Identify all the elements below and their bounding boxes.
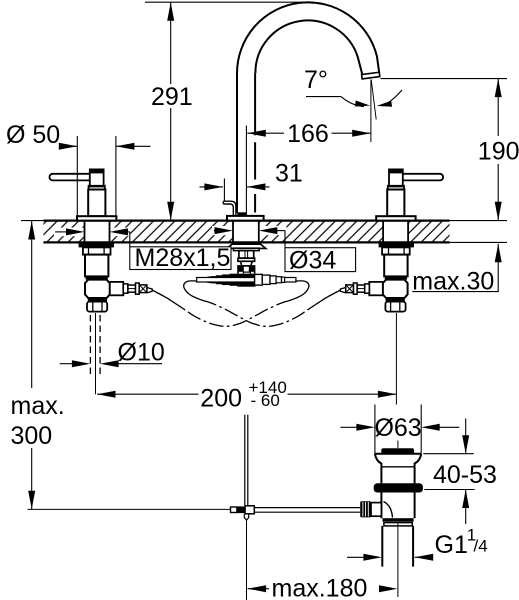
svg-text:Ø63: Ø63: [374, 414, 421, 442]
dimension max.30: [497, 244, 499, 292]
rod horizontal to drain: [254, 507, 360, 509]
spout tube right wall (with gaps for arrows): [254, 73, 256, 135]
handle body: [387, 190, 404, 217]
dimension G1 1/4 arrows: [347, 556, 364, 558]
label M28x1,5 with leader: [55, 231, 67, 233]
lever bar: [401, 174, 444, 181]
right handle and valve (mirrored): [340, 169, 443, 311]
svg-text:Ø10: Ø10: [118, 339, 165, 367]
svg-text:200: 200: [200, 384, 242, 412]
svg-text:40-53: 40-53: [433, 461, 497, 489]
valve shank through counter: [407, 221, 409, 244]
svg-text:190: 190: [478, 138, 519, 166]
pull rod knob at spout: [223, 201, 236, 216]
svg-text:M28x1,5: M28x1,5: [135, 244, 231, 272]
dimension O63: [374, 405, 376, 454]
spout gooseneck tube: [237, 2, 379, 213]
mounting nut: [382, 247, 410, 254]
drain center tick above cap: [397, 441, 399, 449]
spout base block: [237, 212, 246, 216]
spout shank through counter: [232, 221, 234, 244]
valve body: [85, 255, 108, 277]
valve block: [85, 280, 110, 298]
dimension max.180: [248, 585, 267, 592]
valve shank through counter: [84, 221, 86, 244]
rod center line below clevis: [246, 520, 248, 600]
spout angle reference lines: [370, 80, 372, 143]
dimension max. 300: [31, 221, 33, 388]
flex hose from right valve to spout (dash-dot): [184, 281, 341, 326]
drain body upper: [380, 467, 382, 484]
rod clevis joint: [231, 507, 237, 513]
valve block: [383, 280, 408, 298]
valve bottom seal: [88, 298, 107, 302]
dimension 40-53: [423, 453, 473, 455]
lever hub: [90, 169, 104, 186]
svg-text:Ø 50: Ø 50: [6, 121, 60, 149]
side outlet fitting: [110, 282, 124, 295]
svg-text:166: 166: [287, 120, 329, 148]
flex hose from left valve to spout (dash-dot): [152, 281, 309, 326]
mounting washer: [79, 243, 114, 247]
svg-text:300: 300: [11, 422, 53, 450]
spout mounting washer: [227, 244, 266, 248]
svg-text:max.: max.: [11, 392, 65, 420]
dimension 31: [200, 186, 223, 188]
svg-text:7°: 7°: [304, 66, 328, 94]
handle collar: [89, 186, 105, 190]
svg-text:Ø34: Ø34: [289, 247, 336, 275]
side outlet fitting: [369, 282, 383, 295]
lever bar: [50, 174, 93, 181]
svg-text:291: 291: [151, 83, 193, 111]
drain center line: [397, 522, 399, 597]
svg-text:G1: G1: [435, 531, 468, 559]
drain flange: [375, 453, 421, 455]
label O34 with leader: [213, 230, 216, 232]
lower connection nut: [385, 302, 405, 312]
handle base flange: [376, 216, 415, 220]
left valve center line: [95, 313, 97, 394]
valve body: [384, 255, 407, 277]
svg-text:31: 31: [275, 160, 303, 188]
dimension 190: [381, 78, 508, 80]
T-fitting left port: [230, 274, 254, 285]
T-fitting right port: [255, 274, 263, 285]
countertop bottom surface line: [43, 241, 449, 243]
lever hub: [389, 169, 403, 186]
mounting washer: [379, 243, 414, 247]
drain body lower: [380, 493, 382, 519]
drain body bottom band: [383, 518, 414, 522]
drain tailpipe G1 1/4: [381, 526, 383, 567]
spout T-fitting body: [238, 266, 255, 286]
dimension 166: [247, 132, 284, 134]
drain O-ring seal: [374, 483, 423, 492]
countertop top surface line: [43, 220, 449, 222]
svg-text:/4: /4: [474, 537, 488, 556]
dimension 291: [170, 2, 172, 84]
handle collar: [388, 186, 404, 190]
spout T-fitting neck: [239, 251, 254, 259]
pull rod vertical (to clevis): [244, 415, 246, 506]
mounting nut: [83, 247, 111, 254]
spout outlet end cap: [362, 72, 380, 79]
dimension 200 +140/-60: [97, 391, 116, 398]
extension line spout top: [145, 1, 311, 3]
svg-text:max.180: max.180: [272, 574, 368, 600]
valve bottom seal: [386, 298, 405, 302]
inlet pipe dashed (O10): [89, 315, 91, 376]
spout base plate: [227, 216, 264, 221]
lower connection nut: [87, 302, 107, 312]
handle base flange: [77, 216, 116, 220]
rod horizontal left extension: [28, 508, 231, 510]
handle body: [88, 190, 105, 217]
drain plug cap: [381, 448, 414, 454]
drain rod knob (knurled): [360, 501, 371, 517]
left handle and valve: [50, 169, 153, 311]
right valve center line: [395, 313, 397, 405]
countertop hatched section: [43, 221, 449, 243]
svg-text:- 60: - 60: [251, 391, 280, 410]
extension line spout axis: [245, 126, 247, 216]
